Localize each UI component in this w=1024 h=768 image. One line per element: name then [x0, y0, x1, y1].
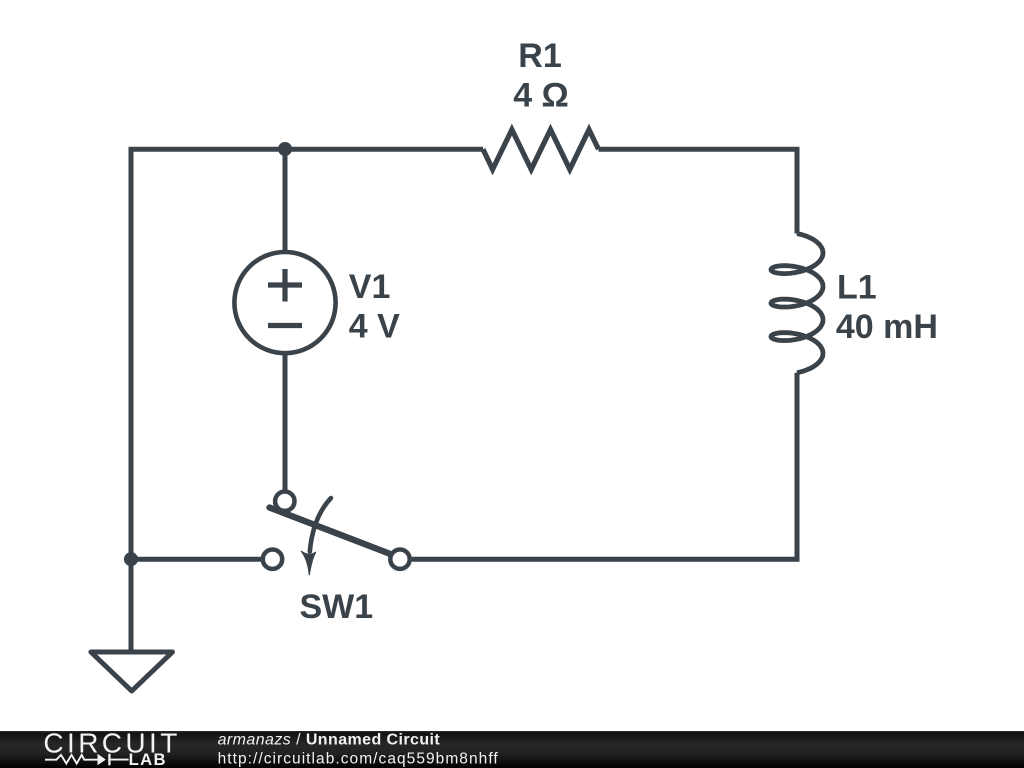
junction node dot (ground node)	[124, 552, 138, 566]
inductor L1 coil	[771, 234, 823, 373]
wire: left rail + top wire left segment	[131, 149, 483, 651]
resistor R1 zigzag	[483, 130, 599, 170]
svg-text:4 Ω: 4 Ω	[513, 76, 569, 114]
V1 plus sign	[268, 269, 302, 302]
switch SW1 arrowhead	[301, 551, 315, 575]
switch SW1 left terminal	[263, 550, 282, 569]
svg-text:R1: R1	[518, 37, 561, 75]
switch SW1 actuation arrow arc	[310, 498, 331, 552]
footer logo schematic: diode bar	[108, 754, 110, 766]
ground symbol	[91, 652, 173, 691]
svg-text:L1: L1	[837, 268, 877, 306]
svg-text:40 mH: 40 mH	[836, 308, 938, 346]
V1 minus sign	[268, 323, 302, 328]
footer logo schematic: wire	[45, 754, 129, 766]
switch SW1 lever	[270, 508, 390, 554]
wire: bottom left segment (ground node to switch)	[131, 557, 261, 562]
switch SW1 top terminal	[275, 492, 294, 511]
svg-text:LAB: LAB	[129, 750, 167, 768]
wire: V1 bottom stub to switch	[283, 352, 288, 490]
wire: top wire right segment + right rail upper	[599, 149, 798, 233]
svg-text:http://circuitlab.com/caq559bm: http://circuitlab.com/caq559bm8nhff	[218, 751, 499, 768]
svg-text:4 V: 4 V	[349, 307, 400, 345]
wire: right rail lower + bottom wire right segment	[412, 373, 797, 560]
voltage source V1 circle	[234, 252, 335, 353]
switch SW1 right terminal	[390, 550, 409, 569]
junction node dot (top, V1/R1)	[278, 142, 292, 156]
wire: V1 top stub	[283, 149, 288, 253]
svg-text:V1: V1	[349, 268, 391, 306]
svg-text:armanazs / Unnamed Circuit: armanazs / Unnamed Circuit	[218, 732, 441, 749]
svg-text:SW1: SW1	[299, 588, 373, 626]
footer bar	[0, 731, 1024, 768]
footer logo schematic: diode triangle	[98, 754, 106, 766]
